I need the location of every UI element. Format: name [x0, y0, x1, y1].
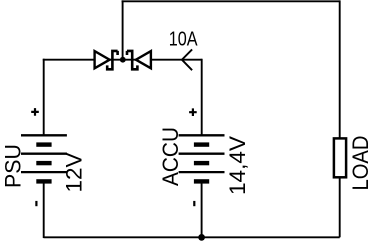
wire diode row right segment to corner	[151, 59, 202, 61]
wire top bus	[122, 0, 340, 2]
battery ACCU plate short 2	[194, 161, 209, 165]
wire bottom bus	[44, 236, 340, 238]
label PSU plus	[31, 108, 39, 116]
battery PSU plate long 2	[21, 153, 67, 155]
label PSU minus	[35, 201, 37, 206]
wire between diode apexes through junction	[109, 59, 138, 61]
svg-text:ACCU: ACCU	[158, 127, 183, 186]
node: diode junction dot	[120, 57, 126, 63]
wire from PSU plus up to diode row	[43, 59, 45, 136]
wire from corner down to ACCU plus	[201, 59, 203, 136]
wire from top bus down to diode junction	[122, 0, 124, 59]
diode D2 triangle	[136, 51, 151, 68]
label ACCU minus	[193, 201, 195, 206]
svg-text:PSU: PSU	[0, 144, 25, 188]
svg-text:12V: 12V	[61, 152, 86, 192]
svg-text:LOAD: LOAD	[348, 136, 370, 191]
battery ACCU plate short 3	[194, 179, 209, 183]
battery PSU plate short 1	[36, 142, 51, 146]
battery PSU plate short 3	[36, 179, 51, 183]
battery PSU plate long 1	[21, 134, 67, 136]
wire from ACCU minus down to bottom junction	[201, 181, 203, 237]
wire right side down to load	[339, 0, 341, 139]
diode D1 (schottky, PSU side) triangle	[95, 51, 110, 68]
diode D1 schottky cathode bar with hooks	[107, 50, 117, 71]
battery ACCU plate long 1	[179, 134, 225, 136]
battery PSU plate short 2	[36, 161, 51, 165]
battery ACCU plate long 2	[179, 153, 225, 155]
wire from PSU minus down to bottom bus	[43, 181, 45, 238]
battery PSU plate long 3	[21, 171, 67, 173]
battery ACCU plate long 3	[179, 171, 225, 173]
svg-text:10A: 10A	[169, 29, 198, 51]
label ACCU plus	[189, 108, 197, 116]
fuse arrow 10A	[182, 49, 192, 70]
diode D2 (schottky, ACCU side) cathode bar with hooks	[127, 50, 137, 71]
node: bottom junction dot	[198, 234, 205, 241]
battery ACCU plate short 1	[194, 142, 209, 146]
resistor LOAD body	[334, 138, 346, 177]
svg-text:14,4V: 14,4V	[225, 136, 250, 195]
wire from load down to bottom bus	[339, 177, 341, 237]
wire diode row left segment	[43, 59, 95, 61]
